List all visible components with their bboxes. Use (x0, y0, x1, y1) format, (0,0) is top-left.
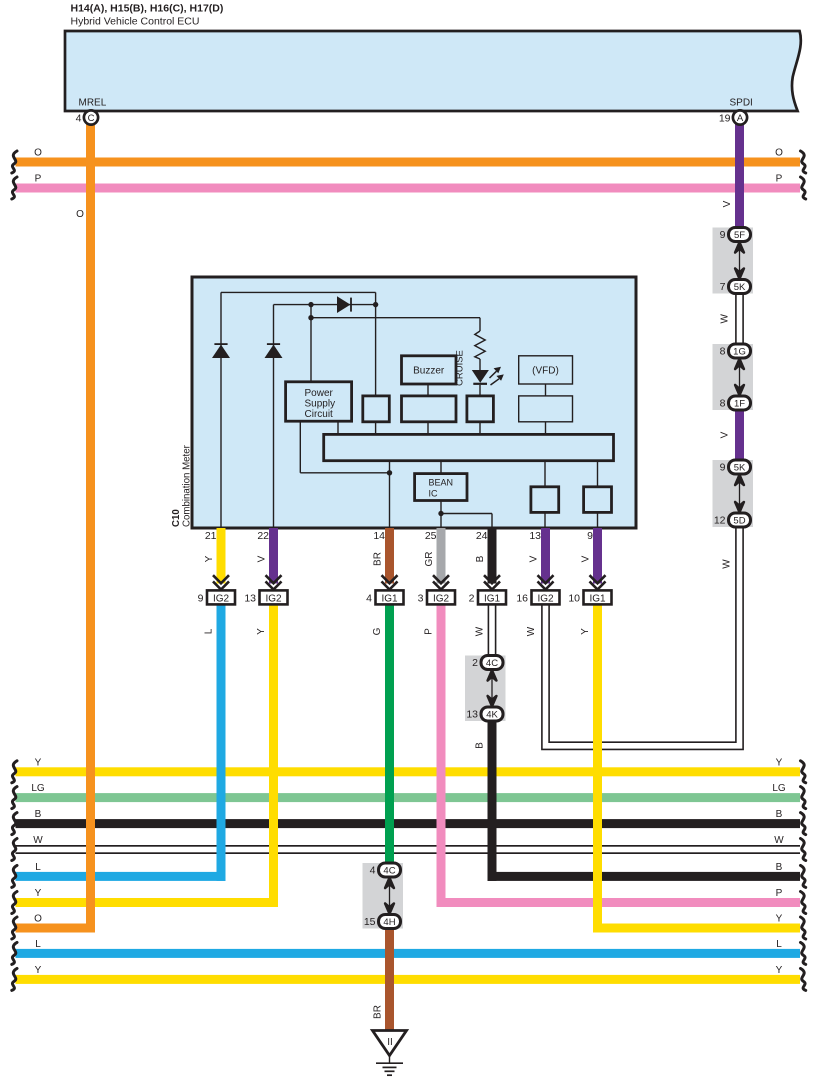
wire P from IG2-3 down to right band (437, 604, 446, 907)
svg-text:8: 8 (720, 346, 726, 358)
cut mark right y=797.6 (801, 787, 806, 809)
svg-text:W: W (722, 559, 733, 569)
svg-text:Y: Y (35, 965, 42, 976)
svg-text:IG1: IG1 (381, 593, 398, 604)
cut mark right y=771.8 (801, 761, 806, 783)
svg-text:II: II (387, 1037, 393, 1048)
cut mark left y=771.8 (12, 761, 17, 783)
svg-text:Buzzer: Buzzer (413, 366, 445, 377)
wire V from meter pin 22 (269, 528, 278, 584)
VFD box (519, 356, 573, 384)
wire bus to box r1 (544, 461, 546, 487)
resistor cruise (475, 331, 485, 359)
svg-text:P: P (776, 888, 783, 899)
svg-text:Combination Meter: Combination Meter (182, 444, 193, 527)
wire P horizontal band (top) (16, 184, 801, 193)
svg-text:2: 2 (472, 657, 478, 669)
wire PSC left stub (299, 421, 301, 473)
svg-text:W: W (475, 626, 486, 636)
svg-text:3: 3 (418, 593, 424, 605)
junction node (387, 470, 392, 475)
wire box r1 to pin 13 (544, 512, 546, 528)
BEAN IC box (415, 474, 467, 501)
wire B horizontal band row3 (16, 819, 801, 828)
cut mark right y=162 (801, 151, 806, 173)
wire VFD to b4 (545, 384, 547, 396)
ECU pin 19 connector A (733, 110, 747, 124)
svg-text:P: P (776, 174, 783, 185)
svg-text:5F: 5F (734, 230, 745, 241)
svg-text:B: B (35, 809, 42, 820)
cut mark left y=979.4 (12, 968, 17, 990)
power supply circuit box (286, 382, 352, 421)
svg-text:Y: Y (204, 555, 215, 562)
svg-text:O: O (76, 209, 84, 220)
wire V vertical from SPDI pin 19 (735, 124, 744, 229)
svg-text:15: 15 (364, 916, 376, 928)
svg-text:14: 14 (373, 530, 385, 542)
svg-text:4C: 4C (383, 865, 395, 876)
diode D2 (265, 343, 283, 358)
wire G from IG1-4 down to 4C (385, 604, 394, 864)
junction arrows above IG2-3 (433, 575, 449, 583)
cut mark right y=953.4 (801, 942, 806, 964)
svg-text:V: V (581, 555, 592, 562)
svg-text:MREL: MREL (79, 98, 107, 109)
svg-text:IG2: IG2 (433, 593, 450, 604)
svg-text:(VFD): (VFD) (532, 366, 559, 377)
cut mark left y=849.5 (12, 839, 17, 861)
svg-text:Hybrid Vehicle Control ECU: Hybrid Vehicle Control ECU (71, 16, 200, 28)
svg-text:21: 21 (205, 530, 217, 542)
svg-text:LG: LG (31, 783, 45, 794)
wire internal third (311, 317, 480, 319)
svg-text:B: B (776, 809, 783, 820)
wire internal top (221, 291, 376, 293)
svg-text:4: 4 (370, 865, 376, 877)
svg-text:4: 4 (366, 593, 372, 605)
svg-text:BR: BR (373, 552, 384, 566)
wire O vertical from MREL pin 4 (86, 124, 95, 933)
svg-text:BR: BR (373, 1005, 384, 1019)
junction block IG2 pin 9 (207, 590, 235, 604)
wire to pin 24 (491, 514, 493, 529)
svg-text:SPDI: SPDI (730, 98, 753, 109)
wire b4 to bus (545, 422, 547, 435)
svg-text:19: 19 (719, 113, 731, 125)
Combination Meter C10 box (192, 277, 636, 528)
svg-text:7: 7 (720, 281, 726, 293)
svg-text:5D: 5D (733, 515, 745, 526)
junction block IG2 pin 16 (532, 590, 560, 604)
connector pair 4C/4H (363, 863, 404, 929)
junction arrows above IG2-16 (538, 575, 554, 583)
wire Y from IG1-10 down to right band (593, 604, 602, 933)
svg-text:P: P (424, 628, 435, 635)
wire GR from meter pin 25 (437, 528, 446, 584)
wire Y horizontal band row6 left (16, 898, 279, 907)
svg-text:L: L (776, 939, 782, 950)
wire BEAN branch to pin 24 (441, 513, 492, 515)
junction arrows above IG1-2 (484, 575, 500, 583)
svg-text:A: A (737, 113, 744, 124)
svg-text:10: 10 (568, 593, 580, 605)
wire bus to pin 14 (389, 461, 391, 528)
connector pair 5K/5D (713, 460, 754, 527)
wire W horizontal band row4 (16, 845, 801, 854)
svg-text:25: 25 (425, 530, 437, 542)
svg-text:B: B (475, 742, 486, 749)
svg-text:Y: Y (256, 628, 267, 635)
svg-text:5K: 5K (734, 462, 746, 473)
buzzer box (402, 356, 457, 384)
wire box r2 to pin 9 (597, 512, 599, 528)
svg-text:IC: IC (429, 489, 439, 499)
wire O horizontal band row7 left (16, 924, 96, 933)
junction node (373, 302, 378, 307)
svg-text:24: 24 (476, 530, 488, 542)
svg-text:V: V (720, 431, 731, 438)
svg-text:H14(A), H15(B), H16(C), H17(D): H14(A), H15(B), H16(C), H17(D) (71, 3, 224, 15)
box r2 (584, 487, 612, 513)
svg-text:Y: Y (580, 628, 591, 635)
wire Y horizontal band row9 (16, 975, 801, 984)
svg-text:13: 13 (529, 530, 541, 542)
svg-text:4C: 4C (486, 658, 498, 669)
cut mark right y=849.5 (801, 839, 806, 861)
svg-text:LG: LG (772, 783, 786, 794)
svg-text:Y: Y (776, 914, 783, 925)
svg-text:IG2: IG2 (537, 593, 554, 604)
wire buzzer to b2 (427, 384, 429, 396)
junction block IG1 pin 4 (376, 590, 404, 604)
svg-text:V: V (722, 200, 733, 207)
svg-text:L: L (35, 862, 41, 873)
svg-text:1G: 1G (733, 346, 746, 357)
cut mark left y=876.4 (12, 865, 17, 887)
wire V from meter pin 9 (593, 528, 602, 584)
wire PSC right stub to bus (337, 421, 339, 434)
wire W from IG2-16 to 5D (U route) (546, 526, 740, 746)
wire to power supply circuit (310, 305, 312, 382)
wire L horizontal band row5 left (16, 872, 226, 881)
cut mark left y=188 (12, 177, 17, 199)
wire BR from 4H down to ground (385, 929, 394, 1033)
wire L from IG2-9 down to left band (217, 604, 226, 881)
svg-text:IG2: IG2 (265, 593, 282, 604)
LED cruise indicator (472, 367, 504, 385)
wire B from 4K down to right band (488, 720, 497, 881)
wire to resistor (479, 318, 481, 331)
cut mark left y=953.4 (12, 942, 17, 964)
box b1 (363, 396, 390, 422)
cut mark left y=902.5 (12, 892, 17, 914)
wire Y from meter pin 21 (217, 528, 226, 584)
cut mark right y=902.5 (801, 892, 806, 914)
box b4 (519, 396, 573, 422)
diode D3 (337, 296, 352, 313)
svg-text:B: B (475, 555, 486, 562)
wire B from meter pin 24 (488, 528, 497, 584)
cut mark right y=979.4 (801, 968, 806, 990)
svg-text:Y: Y (776, 965, 783, 976)
svg-text:GR: GR (424, 552, 435, 567)
svg-text:13: 13 (466, 709, 478, 721)
diode D1 (212, 343, 230, 358)
cut mark right y=876.4 (801, 865, 806, 887)
svg-text:22: 22 (257, 530, 269, 542)
svg-text:G: G (372, 627, 383, 635)
svg-text:4K: 4K (486, 709, 498, 720)
svg-text:V: V (529, 555, 540, 562)
cut mark left y=823.6 (12, 813, 17, 835)
wire B horizontal band row5 right (488, 872, 801, 881)
svg-text:Circuit: Circuit (305, 409, 334, 420)
cut mark left y=162 (12, 151, 17, 173)
junction block IG1 pin 10 (584, 590, 612, 604)
svg-text:4: 4 (76, 113, 82, 125)
cut mark right y=928.0 (801, 917, 806, 939)
svg-text:B: B (776, 862, 783, 873)
svg-text:9: 9 (720, 229, 726, 241)
wire internal second (274, 304, 376, 306)
svg-text:12: 12 (714, 515, 726, 527)
svg-text:W: W (526, 626, 537, 636)
wire BR from meter pin 14 (385, 528, 394, 584)
junction node (308, 302, 313, 307)
junction arrows above IG2-13 (266, 575, 282, 583)
svg-text:V: V (257, 555, 268, 562)
svg-text:P: P (35, 174, 42, 185)
box b2 (402, 396, 457, 422)
cut mark right y=823.6 (801, 813, 806, 835)
cut mark left y=797.6 (12, 787, 17, 809)
svg-text:O: O (775, 148, 783, 159)
svg-text:IG1: IG1 (589, 593, 606, 604)
svg-text:BEAN: BEAN (429, 478, 454, 488)
ECU pin 4 connector C (84, 110, 98, 124)
svg-text:W: W (33, 835, 43, 846)
svg-text:1F: 1F (734, 398, 745, 409)
junction node (438, 511, 443, 516)
svg-text:W: W (774, 835, 784, 846)
svg-text:13: 13 (244, 593, 256, 605)
wire V between 1F and 5K (735, 408, 744, 462)
svg-text:L: L (35, 939, 41, 950)
svg-text:9: 9 (720, 462, 726, 474)
svg-text:C: C (88, 113, 95, 124)
wire PSC to pin14 column (300, 472, 389, 474)
wire b1 to bus (375, 422, 377, 435)
svg-text:9: 9 (587, 530, 593, 542)
wire L horizontal band row8 (16, 949, 801, 958)
svg-text:2: 2 (469, 593, 475, 605)
svg-text:Y: Y (35, 757, 42, 768)
junction block IG2 pin 3 (427, 590, 455, 604)
junction block IG2 pin 13 (260, 590, 288, 604)
wire BEAN to pin 25 (440, 501, 442, 529)
svg-text:4H: 4H (383, 917, 395, 928)
svg-text:L: L (204, 628, 215, 634)
svg-text:IG1: IG1 (484, 593, 501, 604)
wire Y horizontal band row7 right (594, 924, 801, 933)
wire Y horizontal band row1 (16, 767, 801, 776)
svg-text:IG2: IG2 (213, 593, 230, 604)
junction arrows above IG1-10 (590, 575, 606, 583)
ECU box: Hybrid Vehicle Control ECU (65, 31, 801, 111)
wire resistor to LED (479, 359, 481, 371)
cut mark left y=928.0 (12, 917, 17, 939)
connector pair 1G/1F (713, 344, 754, 410)
cut mark right y=188 (801, 177, 806, 199)
ground symbol II (373, 1031, 407, 1076)
svg-text:Y: Y (35, 888, 42, 899)
wire LG horizontal band row2 (16, 793, 801, 802)
wire b2 to bus (427, 422, 429, 435)
wire bus to box r2 (597, 461, 599, 487)
svg-text:C10: C10 (171, 509, 182, 527)
wire to small box b1 (375, 292, 377, 396)
svg-text:16: 16 (516, 593, 528, 605)
junction arrows above IG1-4 (382, 575, 398, 583)
wire P horizontal band row6 right (437, 898, 801, 907)
svg-text:O: O (34, 914, 42, 925)
junction block IG1 pin 2 (478, 590, 506, 604)
connector pair 5F/5K (713, 228, 754, 294)
junction arrows above IG2-9 (213, 575, 229, 583)
svg-text:Supply: Supply (305, 399, 336, 410)
wire bus to BEAN IC (440, 461, 442, 474)
box r1 (531, 487, 559, 513)
connector pair 4C/4K (465, 656, 506, 722)
svg-text:Y: Y (776, 757, 783, 768)
wire b3 to bus (479, 422, 481, 435)
junction node (308, 315, 313, 320)
svg-text:8: 8 (720, 398, 726, 410)
wire W from IG1-2 down to 4C (488, 604, 497, 657)
svg-text:O: O (34, 148, 42, 159)
bus bar (324, 434, 614, 460)
wire Y from IG2-13 down to left band (269, 604, 278, 907)
wire to pin 21 (220, 292, 222, 528)
wire V from meter pin 13 (541, 528, 550, 584)
svg-text:Power: Power (305, 388, 334, 399)
wire O horizontal band (top) (16, 158, 801, 167)
svg-text:5K: 5K (734, 282, 746, 293)
svg-text:W: W (720, 314, 731, 324)
svg-text:9: 9 (198, 593, 204, 605)
wire W between 5K and 1G (735, 292, 744, 346)
wire to pin 22 (273, 305, 275, 528)
wire LED to box b3 (479, 385, 481, 396)
box b3 (467, 396, 494, 422)
